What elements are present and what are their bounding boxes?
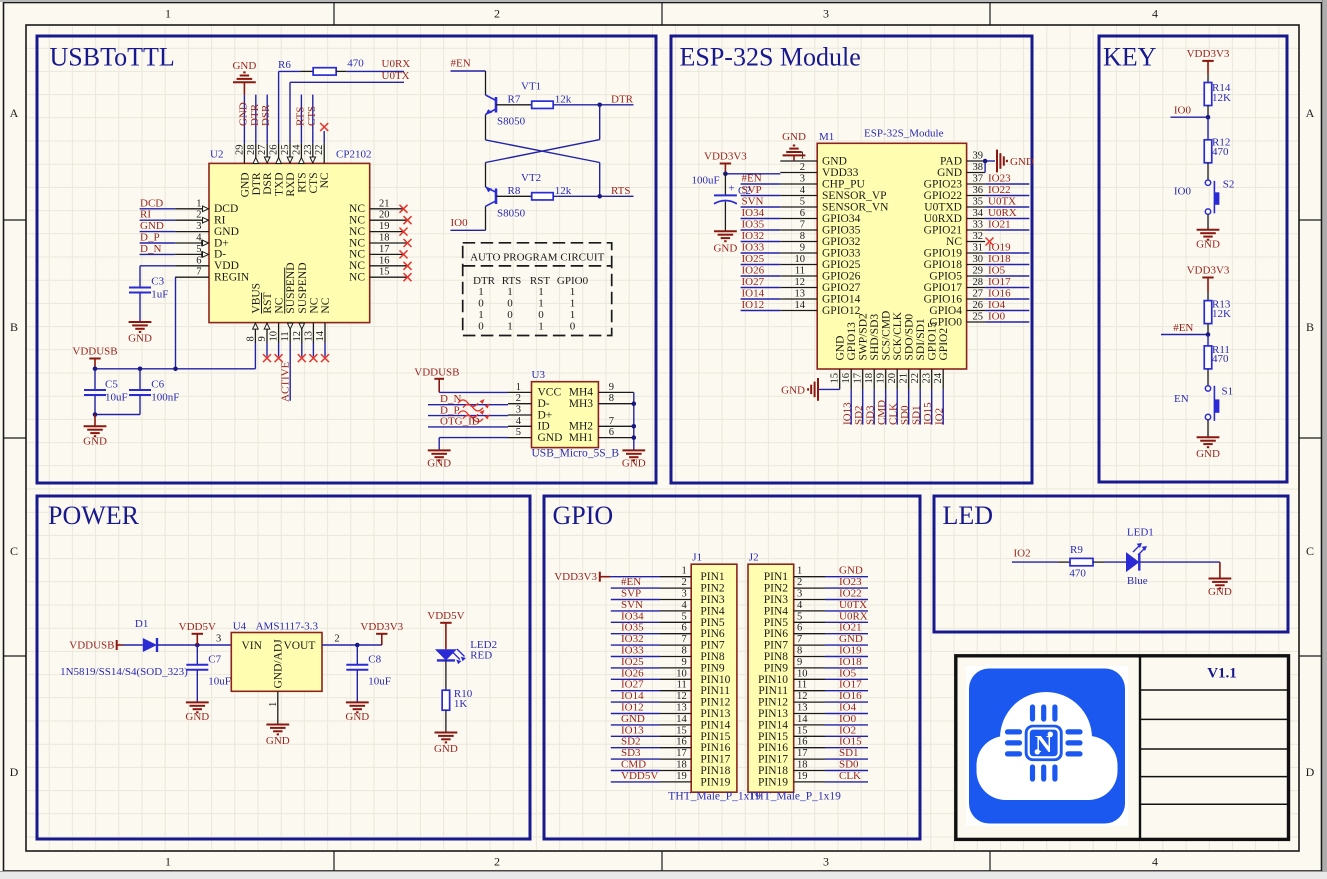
svg-text:12: 12: [797, 691, 808, 702]
U4 pin 1 to ground: [277, 691, 279, 724]
U2 pin 21 NC: [370, 208, 404, 210]
M1 pin 29 GPIO5: [967, 275, 986, 277]
U2 pin 24 RTS (top): [300, 143, 302, 163]
wire U3 mounting pins common: [633, 392, 635, 450]
logo chip pins: [1008, 707, 1081, 779]
logo chip body: [1025, 725, 1063, 761]
U3 pin 1 VCC: [508, 391, 532, 393]
wire net IO4 from J2 pin 13: [825, 713, 868, 715]
svg-text:GPIO4: GPIO4: [929, 305, 962, 317]
wire net IO25 to J1 pin 9: [611, 667, 660, 669]
svg-text:18: 18: [379, 233, 390, 244]
svg-text:21: 21: [899, 373, 910, 384]
U2 pin 17 NC: [370, 253, 404, 255]
section box ESP-32S Module: [671, 36, 1032, 483]
svg-text:GPIO: GPIO: [553, 501, 614, 530]
logo white backing: [966, 666, 1128, 826]
svg-text:1: 1: [538, 286, 544, 298]
svg-text:8: 8: [609, 393, 614, 404]
svg-text:SD3: SD3: [621, 747, 641, 759]
wire net IO5 from M1 pin 29: [985, 275, 1029, 277]
svg-text:USB_Micro_5S_B: USB_Micro_5S_B: [532, 448, 620, 460]
svg-text:22: 22: [910, 373, 921, 384]
ground below S2: [1197, 229, 1220, 231]
svg-text:RTS: RTS: [294, 106, 306, 126]
junction at M1 pin39: [983, 159, 988, 164]
U2 pin 29 GND (top): [243, 143, 245, 163]
svg-text:SDO/SD0: SDO/SD0: [904, 314, 916, 361]
svg-text:5: 5: [682, 611, 687, 622]
wire net IO15 from M1 pin 23: [931, 389, 933, 424]
wire U3 GND pin to ground: [439, 437, 508, 439]
junction VDD5V/C7: [195, 643, 200, 648]
title block divider: [1139, 656, 1141, 840]
J1 pin 8: [660, 656, 691, 658]
wire U2 pin26 TXD up to R6: [278, 71, 280, 143]
J1 pin 10: [660, 678, 691, 680]
logo cloud: [977, 692, 1118, 800]
svg-text:2: 2: [516, 393, 521, 404]
U2 pin 12 SUSPEND (bottom): [301, 323, 303, 343]
svg-text:ACTIVE: ACTIVE: [279, 361, 291, 402]
svg-text:U0RX: U0RX: [839, 610, 868, 622]
svg-text:IO5: IO5: [988, 265, 1006, 277]
svg-text:GPIO21: GPIO21: [924, 224, 963, 236]
svg-text:D+: D+: [214, 237, 229, 249]
wire U2 pin10 stub: [278, 343, 280, 357]
wire C5/C6 bottoms joined: [94, 395, 96, 415]
J2 pin 13: [794, 713, 825, 715]
svg-text:GPIO27: GPIO27: [822, 282, 861, 294]
svg-text:R7: R7: [508, 93, 521, 105]
svg-text:18: 18: [676, 760, 687, 771]
svg-text:IO0: IO0: [1174, 104, 1192, 116]
svg-text:6: 6: [797, 623, 802, 634]
capacitor C7: [196, 645, 198, 665]
wire net IO15 from J2 pin 16: [825, 747, 868, 749]
svg-text:PIN15: PIN15: [700, 731, 730, 743]
svg-text:PIN14: PIN14: [700, 719, 730, 731]
svg-text:SD2: SD2: [621, 736, 641, 748]
wire U2 pin6 VDD to C3: [140, 265, 175, 267]
svg-text:NC: NC: [349, 249, 365, 261]
svg-text:MH1: MH1: [569, 432, 594, 444]
svg-text:23: 23: [922, 373, 933, 384]
svg-text:IO4: IO4: [988, 299, 1006, 311]
svg-text:PIN17: PIN17: [700, 754, 730, 766]
wire R6 to U0RX: [347, 70, 404, 72]
wire net SD1 from M1 pin 22: [919, 389, 921, 424]
svg-text:17: 17: [676, 748, 687, 759]
wire U2 pin12 stub: [301, 343, 303, 357]
no-connect X on U2 pin 17: [400, 250, 408, 258]
wire R12 to S2: [1207, 163, 1209, 180]
resistor R11: [1207, 335, 1209, 346]
svg-text:37: 37: [973, 174, 984, 185]
wire net IO22 from J2 pin 3: [825, 599, 868, 601]
svg-text:9: 9: [797, 657, 802, 668]
wire net SVN to M1 pin 5: [741, 206, 781, 208]
wire C3 to ground: [139, 293, 141, 323]
M1 pin 33 GPIO21: [967, 229, 986, 231]
svg-text:J1: J1: [692, 552, 702, 564]
svg-text:PIN7: PIN7: [764, 640, 789, 652]
wire net IO2 from J2 pin 15: [825, 735, 868, 737]
wire net IO22 from M1 pin 36: [985, 195, 1029, 197]
svg-text:4: 4: [1152, 855, 1158, 869]
svg-text:18: 18: [864, 373, 875, 384]
IC M1 ESP-32S_Module body: [817, 143, 966, 369]
svg-text:PIN6: PIN6: [764, 628, 789, 640]
svg-text:GPIO32: GPIO32: [822, 236, 861, 248]
J1 pin 1: [660, 576, 691, 578]
M1 pin 13 GPIO14: [780, 298, 817, 300]
svg-text:ESP-32S_Module: ESP-32S_Module: [864, 128, 944, 140]
svg-text:1: 1: [478, 286, 484, 298]
svg-text:MH2: MH2: [569, 421, 594, 433]
svg-text:NC: NC: [946, 236, 962, 248]
wire net IO16 from J2 pin 12: [825, 701, 868, 703]
svg-text:9: 9: [682, 657, 687, 668]
svg-text:IO34: IO34: [742, 207, 765, 219]
no-connect X on U2 pin13: [309, 354, 317, 362]
svg-text:PIN2: PIN2: [764, 583, 789, 595]
svg-text:D-: D-: [538, 398, 550, 410]
svg-text:19: 19: [676, 771, 687, 782]
svg-text:9: 9: [800, 243, 805, 254]
svg-text:GPIO16: GPIO16: [924, 293, 963, 305]
U2 pin 25 RXD (top): [289, 143, 291, 163]
wire VT1 emitter down: [485, 114, 487, 139]
svg-text:GND/ADJ: GND/ADJ: [272, 639, 284, 689]
svg-text:2: 2: [494, 7, 500, 21]
wire net IO19 from J2 pin 8: [825, 656, 868, 658]
svg-text:SUSPEND: SUSPEND: [297, 262, 309, 313]
svg-text:VDD5V: VDD5V: [427, 610, 464, 622]
U2 pin 16 NC: [370, 265, 408, 267]
J1 pin 2: [660, 587, 691, 589]
svg-text:SD1: SD1: [839, 747, 859, 759]
M1 pin 15 GND (bottom): [839, 369, 841, 389]
svg-text:12: 12: [292, 331, 303, 342]
svg-text:15: 15: [830, 373, 841, 384]
wire net IO35 to M1 pin 7: [741, 229, 781, 231]
wire U2 pin28 DTR stub up: [255, 95, 257, 144]
wire U2 pin9 RST stub: [266, 343, 268, 357]
svg-text:7: 7: [609, 416, 614, 427]
svg-text:U2: U2: [210, 149, 223, 161]
wire net IO32 to M1 pin 8: [741, 241, 781, 243]
svg-text:GND: GND: [621, 713, 645, 725]
svg-text:IO0: IO0: [839, 713, 857, 725]
no-connect X on U2 pin14: [321, 354, 329, 362]
svg-text:1K: 1K: [454, 698, 468, 710]
svg-text:NC: NC: [349, 237, 365, 249]
svg-text:1: 1: [165, 855, 171, 869]
svg-text:PIN18: PIN18: [700, 765, 730, 777]
svg-text:DCD: DCD: [140, 197, 163, 209]
svg-text:13: 13: [676, 703, 687, 714]
svg-text:8: 8: [245, 336, 256, 341]
junction at DTR node: [597, 103, 602, 108]
svg-text:VDDUSB: VDDUSB: [414, 367, 459, 379]
svg-text:470: 470: [1212, 353, 1229, 365]
svg-text:R9: R9: [1070, 544, 1083, 556]
cross-coupling wire 1: [486, 140, 600, 163]
svg-text:IO34: IO34: [621, 610, 644, 622]
junction U3 MH1: [632, 435, 637, 440]
M1 pin 17 SWP/SD2 (bottom): [862, 369, 864, 389]
svg-text:U0TX: U0TX: [988, 196, 1016, 208]
svg-text:SD2: SD2: [853, 405, 865, 425]
svg-text:6: 6: [682, 623, 687, 634]
svg-text:IO13: IO13: [842, 402, 854, 425]
wire net U0RX from J2 pin 5: [825, 621, 868, 623]
svg-text:15: 15: [676, 725, 687, 736]
J2 pin 15: [794, 735, 825, 737]
U3 pin 7 MH2: [598, 425, 633, 427]
svg-text:14: 14: [797, 714, 808, 725]
power port VDD3V3 (KEY S2): [1202, 60, 1213, 62]
wire net D_N to U2 pin 5: [140, 253, 176, 255]
svg-text:15: 15: [797, 725, 808, 736]
svg-text:VDD5V: VDD5V: [179, 621, 216, 633]
svg-text:NC: NC: [274, 297, 286, 313]
svg-text:PIN4: PIN4: [764, 605, 789, 617]
svg-text:IO16: IO16: [839, 690, 862, 702]
svg-text:VDD3V3: VDD3V3: [360, 621, 403, 633]
wire net IO12 to J1 pin 13: [611, 713, 660, 715]
svg-text:SD1: SD1: [911, 405, 923, 425]
ground right of U3: [622, 449, 645, 451]
svg-text:12k: 12k: [555, 185, 572, 197]
svg-text:PIN19: PIN19: [700, 776, 730, 788]
svg-text:B: B: [1306, 320, 1314, 334]
J2 pin 18: [794, 770, 825, 772]
ground GND above U2: [233, 81, 256, 83]
svg-text:CTS: CTS: [306, 106, 318, 126]
svg-text:RED: RED: [470, 650, 492, 662]
svg-text:GPIO2: GPIO2: [938, 328, 950, 361]
wire net U0RX from M1 pin 34: [985, 218, 1029, 220]
wire net SD0 from J2 pin 18: [825, 770, 868, 772]
svg-text:NC: NC: [319, 172, 331, 188]
wire net SD2 to J1 pin 16: [611, 747, 660, 749]
wire net U0TX from J2 pin 4: [825, 610, 868, 612]
svg-text:1uF: 1uF: [151, 289, 168, 301]
wire R13 to #EN node: [1207, 324, 1209, 335]
svg-text:PAD: PAD: [940, 155, 962, 167]
wire M1 pin15 to ground: [818, 388, 840, 390]
svg-text:PIN8: PIN8: [764, 651, 789, 663]
screen edge strips: [0, 0, 1327, 2]
wire net IO18 from M1 pin 30: [985, 264, 1029, 266]
svg-text:16: 16: [676, 737, 687, 748]
wire OTG_ID to U3: [428, 426, 508, 428]
wire S2 to ground: [1207, 214, 1209, 230]
M1 pin 9 GPIO33: [780, 252, 817, 254]
svg-text:GND: GND: [538, 432, 563, 444]
svg-text:U0RX: U0RX: [988, 207, 1017, 219]
svg-text:MH3: MH3: [569, 398, 594, 410]
switch S1: [1205, 386, 1210, 391]
section box GPIO: [544, 496, 920, 839]
svg-text:U0RX: U0RX: [382, 58, 411, 70]
wire U2 pin23 CTS stub up: [312, 95, 314, 144]
M1 pin 32 NC: [967, 241, 986, 243]
svg-text:3: 3: [196, 221, 201, 232]
U2 pin 1 DCD: [175, 208, 209, 210]
svg-text:#EN: #EN: [451, 58, 471, 70]
IC U3 USB_Micro_5S_B body: [532, 382, 599, 448]
M1 pin 39 PAD: [967, 160, 986, 162]
section box KEY: [1099, 36, 1287, 482]
no-connect X on U2 pin 19: [400, 228, 408, 236]
junction at C6: [138, 367, 143, 372]
svg-text:6: 6: [800, 208, 805, 219]
wire U2 pin29 GND up: [243, 95, 245, 144]
svg-text:CLK: CLK: [839, 770, 861, 782]
junction U3 MH2: [632, 424, 637, 429]
svg-text:28: 28: [246, 145, 257, 156]
svg-text:PIN12: PIN12: [700, 697, 730, 709]
M1 pin 36 GPIO22: [967, 195, 986, 197]
svg-text:VDD: VDD: [214, 260, 239, 272]
wire #EN stub: [1161, 334, 1208, 336]
wire IO0 to VT2: [451, 229, 486, 231]
svg-text:34: 34: [973, 208, 984, 219]
svg-text:REGIN: REGIN: [214, 272, 250, 284]
LED LED1: [1126, 552, 1139, 572]
U2 pin 5 D-: [175, 253, 209, 255]
svg-text:GPIO15: GPIO15: [927, 322, 939, 361]
J2 pin 6: [794, 633, 825, 635]
capacitor C2 (polarized): [724, 174, 726, 196]
wire net IO19 from M1 pin 31: [985, 252, 1029, 254]
J2 pin 16: [794, 747, 825, 749]
svg-text:GPIO14: GPIO14: [822, 293, 861, 305]
svg-text:38: 38: [973, 162, 984, 173]
dashed box AUTO PROGRAM CIRCUIT: [463, 243, 612, 336]
wire net IO16 from M1 pin 27: [985, 298, 1029, 300]
differential pair marks: [458, 400, 483, 411]
junction IO0/R12: [1206, 115, 1211, 120]
svg-text:GPIO17: GPIO17: [924, 282, 963, 294]
M1 pin 18 SHD/SD3 (bottom): [873, 369, 875, 389]
svg-text:17: 17: [379, 244, 390, 255]
svg-text:D1: D1: [135, 618, 148, 630]
column tick marks: [333, 3, 335, 26]
svg-text:GND: GND: [937, 167, 962, 179]
svg-text:GPIO19: GPIO19: [924, 247, 963, 259]
svg-text:3: 3: [797, 589, 802, 600]
svg-text:IO12: IO12: [621, 702, 644, 714]
wire net IO25 to M1 pin 10: [741, 264, 781, 266]
svg-text:23: 23: [303, 145, 314, 156]
no-connect X on U2 pin 20: [404, 216, 412, 224]
J1 pin 7: [660, 644, 691, 646]
wire net SD3 to J1 pin 17: [611, 758, 660, 760]
wire U2 pin24 RTS stub up: [300, 95, 302, 144]
resistor R12: [1207, 117, 1209, 140]
wire R11 to S1: [1207, 369, 1209, 385]
svg-text:27: 27: [973, 289, 984, 300]
svg-text:IO18: IO18: [839, 656, 862, 668]
svg-text:7: 7: [196, 267, 201, 278]
resistor R9: [1058, 561, 1070, 563]
svg-text:IO0: IO0: [451, 217, 469, 229]
ground left of M1 pin15: [817, 378, 819, 401]
svg-text:39: 39: [973, 151, 984, 162]
ground below C8: [346, 701, 369, 703]
svg-text:VT1: VT1: [521, 81, 541, 93]
svg-text:1N5819/SS14/S4(SOD_323): 1N5819/SS14/S4(SOD_323): [60, 666, 188, 678]
wire C7 to ground: [196, 670, 198, 703]
M1 pin 7 GPIO35: [780, 229, 817, 231]
wire S1 to ground: [1207, 420, 1209, 438]
wire DTR node down: [599, 105, 601, 140]
section box USBToTTL: [37, 36, 656, 483]
svg-text:SVP: SVP: [621, 588, 641, 600]
M1 pin 4 SENSOR_VP: [780, 195, 817, 197]
svg-text:EN: EN: [1174, 393, 1189, 405]
wire net D_P to U2 pin 4: [140, 242, 176, 244]
wire net CLK from M1 pin 20: [896, 389, 898, 424]
M1 pin 19 SCS/CMD (bottom): [885, 369, 887, 389]
wire U2 pin14 stub: [324, 343, 326, 357]
IC U4 AMS1117-3.3 body: [231, 633, 322, 692]
svg-text:8: 8: [797, 646, 802, 657]
svg-text:18: 18: [797, 760, 808, 771]
svg-text:22: 22: [314, 145, 325, 156]
capacitor C5: [94, 369, 96, 390]
wire net SVP to J1 pin 3: [611, 599, 660, 601]
svg-text:RTS: RTS: [611, 185, 631, 197]
J1 pin 18: [660, 770, 691, 772]
svg-text:GPIO34: GPIO34: [822, 213, 861, 225]
svg-text:PIN8: PIN8: [700, 651, 725, 663]
M1 pin 16 GPIO13 (bottom): [850, 369, 852, 389]
J2 pin 11: [794, 690, 825, 692]
svg-text:100uF: 100uF: [692, 175, 720, 187]
svg-text:26: 26: [269, 145, 280, 156]
svg-text:1: 1: [165, 7, 171, 21]
wire net IO33 to J1 pin 8: [611, 656, 660, 658]
J2 pin 4: [794, 610, 825, 612]
resistor R14: [1207, 74, 1209, 83]
svg-text:GND: GND: [232, 60, 256, 72]
svg-text:PIN10: PIN10: [700, 674, 730, 686]
svg-text:U3: U3: [532, 369, 546, 381]
svg-text:D: D: [10, 765, 19, 779]
svg-text:U0RXD: U0RXD: [924, 213, 962, 225]
wire net IO23 from M1 pin 37: [985, 183, 1029, 185]
svg-text:13: 13: [797, 703, 808, 714]
svg-text:GPIO18: GPIO18: [924, 259, 963, 271]
svg-text:AUTO PROGRAM CIRCUIT: AUTO PROGRAM CIRCUIT: [470, 252, 605, 264]
svg-text:GND: GND: [1208, 586, 1232, 598]
wire net SD0 from M1 pin 21: [908, 389, 910, 424]
svg-text:PIN4: PIN4: [700, 605, 725, 617]
svg-text:4: 4: [797, 600, 803, 611]
J2 pin 9: [794, 667, 825, 669]
svg-text:IO23: IO23: [839, 576, 862, 588]
wire net IO0 from J2 pin 14: [825, 724, 868, 726]
svg-text:RST: RST: [262, 293, 274, 314]
ground below R10: [435, 732, 458, 734]
svg-text:RI: RI: [140, 209, 151, 221]
svg-text:7: 7: [682, 634, 687, 645]
